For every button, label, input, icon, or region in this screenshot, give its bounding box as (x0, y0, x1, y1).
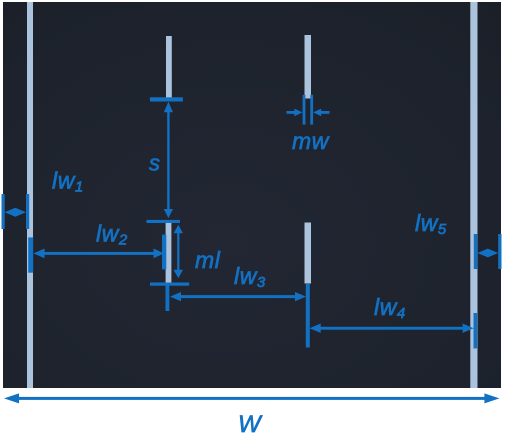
top-right monopole strip (305, 35, 312, 99)
dimension mw ticks (303, 95, 313, 125)
dimension s double arrow (164, 102, 173, 218)
dimension ml double arrow (174, 225, 183, 278)
dimension lw1 double arrow (5, 208, 26, 217)
left edge strip conductor (27, 2, 33, 388)
dimension lw3 left extension line (166, 286, 170, 312)
dimension mw left arrow (287, 109, 303, 117)
dimension lw4 double arrow (310, 324, 474, 333)
dimension mw right arrow (313, 109, 329, 117)
dimension s bottom tick (147, 220, 181, 223)
svg-text:ml: ml (195, 247, 221, 273)
mid-left monopole strip (166, 223, 172, 284)
dimension s top tick (150, 97, 183, 101)
right edge strip conductor (470, 2, 477, 388)
dimension lw3 double arrow (170, 292, 306, 301)
dimension lw5 ticks (474, 234, 502, 269)
svg-text:mw: mw (292, 128, 330, 154)
top-left monopole strip (166, 36, 172, 98)
dimension lw2 tick on left strip (28, 237, 33, 272)
dimension lw5 double arrow (477, 249, 498, 258)
dimension lw2 tick on mid strip (162, 235, 166, 270)
dimension W double arrow (4, 393, 499, 403)
dimension lw3 right extension line (306, 284, 310, 348)
dimension lw1 ticks (2, 194, 30, 229)
svg-text:s: s (149, 151, 161, 176)
dimension ml bottom tick (150, 283, 189, 286)
mid-right monopole strip (305, 223, 312, 284)
dimension lw2 double arrow (34, 249, 165, 259)
dimension lw4 right tick on right strip (474, 313, 478, 348)
svg-text:W: W (238, 411, 263, 438)
